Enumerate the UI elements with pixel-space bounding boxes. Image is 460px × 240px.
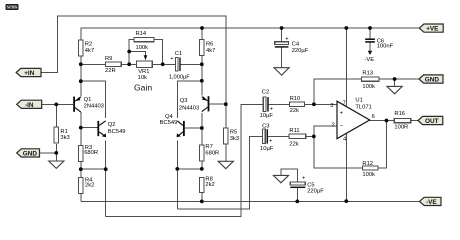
wire R5 bottom stub [225, 144, 227, 162]
junction output node [385, 119, 389, 123]
wire pin3 node up to R13 [314, 79, 362, 104]
wire -IN to Q1 base [42, 103, 73, 105]
junction R3/R4 node [79, 167, 83, 171]
tag OUT [418, 116, 443, 125]
-VE arrow under C6 [368, 51, 373, 55]
svg-text:R1: R1 [60, 129, 67, 135]
svg-text:10µF: 10µF [260, 146, 274, 152]
junction pin4 on -VE rail [344, 199, 348, 203]
logo badge top-left [6, 4, 19, 10]
svg-text:Q1: Q1 [84, 97, 92, 103]
svg-text:+VE: +VE [426, 26, 439, 33]
svg-text:1,000µF: 1,000µF [169, 75, 191, 81]
junction C1/R6 node [200, 62, 204, 66]
svg-text:22k: 22k [289, 142, 298, 148]
wire C2 to R10 [268, 103, 290, 105]
svg-text:R12: R12 [362, 161, 373, 167]
svg-text:R2: R2 [85, 42, 92, 48]
junction R14/C1 node [161, 62, 165, 66]
svg-text:GND: GND [425, 77, 440, 84]
svg-text:7: 7 [343, 101, 346, 107]
tag -VE [420, 197, 442, 206]
svg-text:BC549: BC549 [108, 129, 126, 135]
svg-text:R10: R10 [290, 96, 301, 102]
wiper arrowhead [144, 55, 148, 60]
wire Q4 collector link [177, 81, 202, 118]
wire R2 bottom to R9 row [81, 56, 106, 65]
resistor R1 [54, 127, 70, 143]
resistor R2 [79, 40, 95, 56]
resistor R3 [79, 145, 98, 162]
resistor R12 [362, 161, 378, 178]
junction C6 on +VE rail [368, 26, 372, 30]
capacitor C6 [365, 38, 393, 49]
resistor R5 [224, 128, 240, 144]
wire GND tag [40, 152, 57, 154]
svg-text:TL071: TL071 [355, 104, 371, 110]
svg-text:R7: R7 [205, 144, 212, 150]
ground under R5 [218, 161, 233, 168]
wire R6 stubs [201, 28, 203, 64]
svg-text:100k: 100k [362, 172, 375, 178]
svg-text:3k3: 3k3 [60, 135, 69, 141]
svg-text:220µF: 220µF [307, 188, 324, 194]
wire R5 top stub [225, 104, 227, 128]
svg-text:10µF: 10µF [260, 113, 274, 119]
svg-text:4k7: 4k7 [85, 48, 94, 54]
svg-text:4: 4 [343, 137, 346, 143]
wire pin4 supply [345, 134, 347, 202]
wire R3 leads [80, 128, 82, 170]
svg-text:BC549: BC549 [160, 120, 178, 126]
svg-text:100R: 100R [394, 125, 408, 131]
resistor R16 [394, 111, 411, 131]
junction GND wire / R1 bottom [54, 151, 58, 155]
svg-text:-VE: -VE [365, 57, 375, 63]
wire Q1 emitter up [80, 64, 82, 96]
junction R1 on -IN wire [54, 103, 58, 107]
wire R14 right drop [154, 40, 163, 65]
wire C4 stubs [281, 28, 283, 68]
svg-text:100nF: 100nF [377, 44, 394, 50]
svg-text:6: 6 [372, 114, 375, 120]
wire pin7 supply [345, 28, 347, 106]
junction Q3 emitter node [200, 79, 204, 83]
wire Q2 base [81, 127, 98, 129]
wire R13 to GND tag [379, 78, 419, 80]
junction pin7 on +VE rail [344, 26, 348, 30]
svg-text:680R: 680R [205, 151, 219, 157]
wire VR1 to C1 [152, 63, 175, 65]
svg-text:R11: R11 [289, 128, 299, 134]
tag GND right [419, 75, 443, 84]
tag +VE [419, 24, 443, 33]
wire R7 bottom lead [201, 161, 203, 169]
svg-text:C1: C1 [175, 51, 182, 57]
junction R2/R9 node [79, 62, 83, 66]
ground under R13 [387, 86, 402, 93]
transistor Q2 [97, 121, 125, 137]
svg-text:22k: 22k [290, 108, 299, 114]
svg-text:R6: R6 [206, 42, 213, 48]
junction Q2 emitter node [104, 167, 108, 171]
svg-text:100k: 100k [136, 45, 149, 51]
capacitor C3 [260, 124, 274, 152]
wire +VE rail [81, 28, 420, 40]
wire Q2 emitter down [105, 141, 107, 217]
op-amp U1 [330, 98, 375, 143]
wire C5 ground link [281, 169, 297, 202]
capacitor C5 [290, 176, 324, 195]
transistor Q4 [160, 114, 185, 137]
wire C2 loop bottom [106, 104, 264, 216]
junction R14/wiper node [127, 50, 131, 54]
potentiometer VR1 [134, 61, 152, 93]
wire R14 left drop [129, 40, 134, 65]
svg-text:+IN: +IN [24, 70, 35, 77]
svg-text:U1: U1 [355, 98, 362, 104]
resistor R6 [200, 40, 216, 56]
svg-text:-IN: -IN [25, 102, 34, 109]
svg-text:22R: 22R [105, 68, 116, 74]
transistor Q3 [179, 96, 210, 111]
svg-text:220µF: 220µF [292, 48, 309, 54]
wire R3/R4 to Q2 emitter [81, 168, 106, 170]
svg-text:10k: 10k [138, 75, 147, 81]
junction Q4 emitter node [175, 167, 179, 171]
ground near C5 [273, 175, 288, 182]
junction pin2 node [312, 135, 316, 139]
wire Q1 collector down to Q2 base node [80, 112, 82, 128]
ground under R1 [49, 161, 64, 168]
wire +IN to top rail [41, 16, 226, 104]
junction C5 on -VE rail [295, 200, 299, 204]
resistor R13 [361, 71, 379, 91]
junction R6 top on +VE rail [200, 26, 204, 30]
wire R1 stub top [55, 104, 57, 127]
wire Q3 collector down [201, 113, 203, 145]
wire R9 to VR1 [121, 63, 136, 65]
resistor R7 [200, 144, 220, 161]
svg-text:OUT: OUT [425, 118, 439, 125]
svg-text:2N4403: 2N4403 [179, 105, 199, 111]
svg-text:Q2: Q2 [108, 122, 116, 128]
svg-text:R13: R13 [362, 71, 373, 77]
junction pin3 node [312, 102, 316, 106]
svg-text:Q3: Q3 [180, 98, 188, 104]
svg-text:R14: R14 [136, 31, 147, 37]
junction Q3 base node [224, 102, 228, 106]
tag -IN [17, 100, 42, 109]
ground under C4 [274, 68, 289, 75]
wire -VE rail [81, 200, 420, 202]
svg-text:-VE: -VE [426, 199, 437, 206]
wire C6 stubs [369, 28, 371, 51]
wire opamp output [370, 120, 395, 122]
capacitor C2 [260, 89, 274, 119]
svg-text:680R: 680R [84, 150, 98, 156]
capacitor C4 [275, 37, 309, 54]
wire GND stub under R13 [394, 79, 396, 86]
wire VR1 wiper tap [129, 52, 145, 58]
capacitor C1 [169, 51, 191, 80]
tag GND left [17, 149, 40, 158]
wire R8 bottom stub [201, 192, 203, 201]
svg-text:C4: C4 [292, 41, 300, 47]
wire C3 to R11 [267, 135, 289, 137]
svg-text:R16: R16 [394, 111, 405, 117]
junction C4 on +VE rail [280, 26, 284, 30]
wire R11 to pin2 node [306, 135, 314, 137]
svg-text:C2: C2 [262, 89, 269, 95]
wire Q1 emitter node to Q2 collector [81, 81, 106, 118]
svg-text:2k2: 2k2 [205, 182, 214, 188]
junction R8 on -VE rail [200, 200, 204, 204]
svg-text:R9: R9 [105, 56, 112, 62]
svg-text:3k3: 3k3 [230, 136, 239, 142]
svg-text:Gain: Gain [134, 83, 152, 93]
wire Q4 emitter to R7/R8 node [177, 168, 202, 170]
svg-text:3: 3 [330, 103, 333, 109]
wire C1 to Q3 emitter column [180, 63, 201, 65]
junction R13/GND node [393, 77, 397, 81]
svg-text:GND: GND [23, 150, 38, 157]
svg-text:2N4403: 2N4403 [84, 103, 104, 109]
svg-text:4k7: 4k7 [206, 48, 215, 54]
wire R1 stub bottom [55, 144, 57, 161]
wire R4 leads [80, 169, 82, 201]
svg-text:C3: C3 [262, 124, 269, 130]
resistor R10 [290, 96, 305, 114]
junction R9/VR1 node [127, 62, 131, 66]
svg-text:100k: 100k [362, 84, 375, 90]
resistor R4 [79, 177, 95, 193]
junction Q1 emitter node [79, 79, 83, 83]
wire pin2 loop [314, 126, 363, 168]
wire Q3 emitter column [201, 64, 203, 95]
transistor Q1 [73, 97, 104, 112]
wire Q4 base [185, 127, 202, 129]
resistor R14 [134, 31, 154, 51]
svg-text:Q4: Q4 [165, 114, 174, 120]
wire Q4 emitter down [176, 141, 178, 209]
svg-text:VR1: VR1 [138, 69, 149, 75]
junction Q3 collector / Q4 base [200, 126, 204, 130]
tag +IN [16, 68, 41, 77]
resistor R8 [200, 177, 215, 193]
resistor R11 [289, 128, 306, 148]
svg-text:2k2: 2k2 [85, 183, 94, 189]
wire C3 loop bottom [177, 136, 262, 208]
resistor R9 [105, 56, 121, 74]
wire R16 to OUT tag [411, 120, 418, 122]
wire R10 to pin3 [305, 103, 337, 105]
wire R12 right to output [378, 121, 386, 169]
svg-text:2: 2 [332, 122, 335, 128]
junction R7/R8 node [200, 167, 204, 171]
svg-text:R5: R5 [230, 130, 237, 136]
junction Q1 collector / Q2 base [79, 126, 83, 130]
wire Q3 base [209, 103, 225, 105]
